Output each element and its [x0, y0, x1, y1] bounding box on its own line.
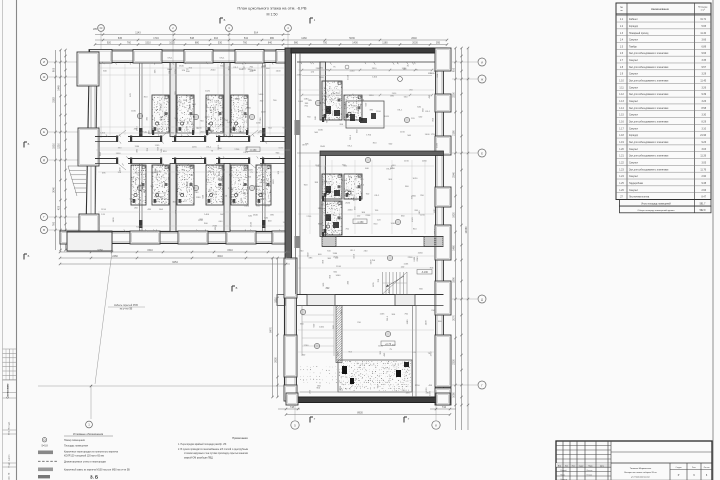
svg-text:Д: Д [481, 297, 483, 301]
wall y151 right wing [320, 151, 444, 156]
svg-text:1155: 1155 [420, 214, 425, 216]
svg-text:1510: 1510 [369, 95, 375, 97]
svg-text:1180: 1180 [256, 122, 261, 124]
svg-text:9.39: 9.39 [702, 94, 707, 96]
svg-text:ОК-1: ОК-1 [386, 169, 392, 171]
svg-text:Е: Е [481, 151, 483, 155]
lower wing corridor lines [302, 314, 334, 316]
svg-text:1400: 1400 [276, 71, 282, 73]
svg-text:1180: 1180 [340, 385, 342, 390]
svg-text:2640: 2640 [219, 170, 221, 176]
svg-text:1020: 1020 [205, 90, 211, 92]
level mark boxes [353, 219, 367, 224]
svg-text:1155: 1155 [373, 282, 375, 287]
partition walls row2 [170, 164, 176, 232]
svg-text:1.24: 1.24 [619, 176, 624, 178]
interior stairs [382, 272, 384, 294]
svg-text:2260: 2260 [229, 197, 235, 199]
svg-text:31.71: 31.71 [700, 19, 706, 21]
svg-text:2260: 2260 [246, 107, 252, 109]
bottom dimension corner left [278, 408, 300, 410]
wall tick noise [188, 134, 190, 136]
svg-text:3.30: 3.30 [702, 115, 707, 117]
left dimension row 2 [60, 50, 62, 250]
svg-text:980: 980 [270, 37, 275, 40]
svg-text:1400: 1400 [426, 320, 428, 326]
svg-text:1.25: 1.25 [619, 183, 624, 185]
svg-text:1.14: 1.14 [619, 108, 624, 110]
svg-text:1400: 1400 [113, 217, 115, 223]
svg-text:2030: 2030 [412, 42, 418, 45]
lower wing left dims outer [272, 258, 274, 397]
svg-text:1400: 1400 [372, 77, 378, 79]
svg-text:В: В [236, 286, 238, 290]
svg-text:Тамбур: Тамбур [629, 46, 638, 48]
svg-text:Зал для собеседования с клиент: Зал для собеседования с клиентами [629, 81, 669, 83]
left dimension row 3 [65, 50, 67, 250]
svg-text:21.96: 21.96 [700, 135, 706, 137]
legend item brick fence [38, 468, 53, 472]
svg-text:Зал для собеседования с клиент: Зал для собеседования с клиентами [629, 67, 669, 69]
bathroom C2 [344, 95, 362, 120]
svg-text:3.05: 3.05 [702, 162, 707, 164]
svg-text:880: 880 [195, 42, 200, 45]
svg-text:534: 534 [244, 37, 249, 40]
section cut mark Г [309, 417, 311, 423]
svg-text:1155: 1155 [404, 161, 409, 163]
title block (stamp) [556, 441, 712, 480]
stairs level box [417, 270, 432, 275]
svg-text:1510: 1510 [190, 97, 192, 103]
svg-text:1.22: 1.22 [619, 162, 624, 164]
svg-text:1180: 1180 [304, 98, 309, 100]
svg-text:1510: 1510 [227, 249, 233, 252]
svg-text:1400: 1400 [425, 134, 431, 136]
dimension row 1 top [95, 34, 290, 36]
svg-text:Коридор: Коридор [629, 135, 639, 137]
svg-text:Взам. инв. №: Взам. инв. № [8, 472, 11, 480]
svg-text:8.29: 8.29 [702, 122, 707, 124]
svg-text:2640: 2640 [205, 117, 211, 119]
top wall left wing [89, 49, 291, 51]
svg-text:9254: 9254 [172, 261, 178, 264]
svg-text:1180: 1180 [332, 253, 337, 255]
left margin revision stamp grid [3, 348, 17, 350]
svg-text:Коридор: Коридор [629, 26, 639, 28]
svg-text:2640: 2640 [210, 70, 216, 72]
dimension row below left wing 3 [60, 263, 290, 265]
svg-text:1.15: 1.15 [619, 115, 624, 117]
svg-text:1.11: 1.11 [619, 87, 624, 89]
svg-text:Общая площадь помещений здания: Общая площадь помещений здания [638, 209, 676, 212]
corridor wall upper [95, 136, 291, 138]
svg-text:1750: 1750 [303, 345, 309, 347]
svg-text:760: 760 [53, 221, 56, 226]
partition x320 upper right wing [320, 62, 326, 120]
svg-text:920: 920 [107, 42, 112, 45]
svg-text:Санузел: Санузел [629, 190, 639, 192]
svg-text:425: 425 [58, 205, 61, 210]
svg-text:Санузел: Санузел [629, 162, 639, 164]
section cut mark Б [219, 18, 221, 24]
svg-text:2. В кухнях проводится газос: 2. В кухнях проводится газоснабжение и/б… [178, 448, 248, 451]
svg-text:1.20: 1.20 [619, 149, 624, 151]
svg-text:1400: 1400 [335, 275, 341, 277]
svg-text:Зал для собеседования с клиент: Зал для собеседования с клиентами [629, 156, 669, 158]
svg-text:1510: 1510 [376, 111, 382, 113]
svg-text:2.90: 2.90 [702, 176, 707, 178]
svg-text:2640: 2640 [167, 69, 173, 71]
svg-text:1400: 1400 [116, 153, 122, 155]
bathroom B4 [231, 165, 248, 205]
svg-text:8470: 8470 [270, 327, 273, 333]
svg-text:591.7: 591.7 [700, 203, 706, 205]
bottom wall left wing [60, 231, 291, 233]
svg-text:1020: 1020 [412, 178, 418, 180]
svg-text:11.76: 11.76 [700, 169, 706, 171]
svg-text:640: 640 [268, 42, 273, 45]
lower wing left dims [277, 258, 279, 397]
svg-text:845: 845 [118, 37, 123, 40]
svg-text:ОК-1: ОК-1 [321, 205, 327, 207]
svg-text:ОК-1: ОК-1 [434, 228, 436, 234]
pilaster left bottom [79, 214, 99, 244]
svg-text:1143: 1143 [135, 32, 141, 35]
svg-text:700: 700 [323, 42, 328, 45]
bathroom A1 [152, 95, 169, 133]
legend item brick partitions [38, 451, 53, 455]
svg-text:1180: 1180 [134, 146, 139, 148]
svg-text:1750: 1750 [177, 102, 183, 104]
svg-text:1910: 1910 [372, 68, 378, 70]
svg-text:ОК-1: ОК-1 [347, 146, 353, 148]
svg-text:Стадия: Стадия [675, 467, 681, 469]
long reference line bottom left [38, 385, 290, 387]
svg-text:760: 760 [243, 42, 248, 45]
section cut mark Г [403, 417, 405, 423]
bathroom B3 [206, 165, 223, 205]
svg-text:2070: 2070 [453, 315, 456, 321]
pilaster left top [77, 52, 99, 86]
svg-text:S=5.8: S=5.8 [41, 444, 48, 447]
svg-text:Лист: Лист [692, 467, 696, 469]
cable leader line [95, 252, 112, 384]
svg-text:2640: 2640 [179, 66, 185, 68]
bottom axis circles [291, 421, 299, 429]
svg-text:Санузел: Санузел [629, 149, 639, 151]
bottom wall right wing [286, 397, 450, 403]
svg-text:В: В [43, 228, 45, 232]
left wall windows [90, 86, 92, 128]
svg-text:1510: 1510 [347, 74, 349, 80]
svg-text:Е: Е [43, 130, 45, 134]
right axis circles and lines [478, 58, 486, 66]
svg-text:2640: 2640 [142, 187, 148, 189]
bathroom B5 [256, 165, 271, 205]
svg-text:1750: 1750 [208, 95, 210, 101]
svg-text:9.57: 9.57 [702, 67, 707, 69]
svg-text:3163: 3163 [53, 97, 56, 103]
svg-text:Зал для собеседования с клиент: Зал для собеседования с клиентами [629, 122, 669, 124]
svg-text:Кирпичные перегородки из полно: Кирпичные перегородки из полнотелого кир… [64, 451, 119, 454]
svg-text:Б: Б [224, 18, 226, 22]
svg-text:1020: 1020 [283, 222, 289, 224]
bathroom fixtures dark blobs [326, 106, 331, 114]
svg-text:ОК-1: ОК-1 [350, 134, 352, 140]
svg-text:538: 538 [190, 37, 195, 40]
svg-text:Пожарный проход: Пожарный проход [629, 32, 649, 35]
svg-text:Разраб.: Разраб. [561, 470, 568, 472]
legend item demolished walls [38, 460, 57, 462]
svg-text:-6.196: -6.196 [421, 272, 428, 274]
svg-text:2640: 2640 [307, 252, 309, 258]
dimension row 2 top [95, 39, 447, 41]
svg-text:2640: 2640 [315, 165, 321, 167]
svg-text:1400: 1400 [227, 122, 233, 124]
svg-text:ОК-1: ОК-1 [220, 58, 226, 60]
top axis circles [98, 25, 105, 32]
svg-text:2640: 2640 [239, 69, 245, 71]
svg-text:3.29: 3.29 [702, 74, 707, 76]
svg-text:3040: 3040 [53, 187, 56, 193]
svg-text:Зал для собеседования с клиент: Зал для собеседования с клиентами [629, 169, 669, 171]
svg-text:Зал для собеседования с клиент: Зал для собеседования с клиентами [629, 94, 669, 96]
svg-text:-6.150: -6.150 [250, 149, 257, 152]
svg-text:Санузел: Санузел [629, 74, 639, 76]
svg-text:стояком наружных стен путями п: стояком наружных стен путями прокладку с… [184, 453, 249, 455]
svg-text:1155: 1155 [101, 209, 106, 211]
svg-text:8930: 8930 [357, 412, 363, 415]
svg-text:ОК-1: ОК-1 [425, 111, 431, 113]
svg-text:1750: 1750 [366, 135, 372, 137]
svg-text:285: 285 [93, 28, 98, 31]
partition walls row1 [170, 63, 176, 137]
svg-text:1716: 1716 [153, 37, 159, 40]
kitchen partition x413 [412, 306, 414, 397]
svg-text:1180: 1180 [319, 77, 324, 79]
svg-text:№: № [620, 6, 623, 9]
svg-text:1890: 1890 [453, 277, 456, 283]
svg-text:3.10: 3.10 [702, 128, 707, 130]
svg-text:1180: 1180 [382, 42, 388, 45]
svg-text:1.26: 1.26 [619, 190, 624, 192]
svg-text:916: 916 [214, 37, 219, 40]
svg-text:530: 530 [218, 42, 223, 45]
svg-text:Ж: Ж [43, 75, 46, 79]
svg-text:1180: 1180 [434, 208, 436, 213]
bottom dimension corner right [430, 408, 456, 410]
svg-text:маркой-ОМ разобщая ПВД: маркой-ОМ разобщая ПВД [184, 456, 213, 459]
frame right border [712, 0, 714, 480]
door jambs corridor [116, 136, 118, 143]
right dimension row 1 [455, 48, 457, 430]
svg-text:2260: 2260 [151, 172, 157, 174]
svg-text:2640: 2640 [417, 256, 419, 262]
svg-text:395: 395 [436, 42, 441, 45]
svg-text:1180: 1180 [407, 319, 409, 324]
svg-text:ОК-1: ОК-1 [160, 103, 162, 109]
wall y236 right wing [322, 236, 444, 238]
svg-text:3250: 3250 [453, 92, 456, 98]
svg-text:ОК-1: ОК-1 [350, 250, 356, 252]
svg-text:1020: 1020 [329, 99, 335, 101]
svg-text:1.16: 1.16 [619, 122, 624, 124]
sheet left edge line [2, 0, 4, 480]
svg-text:1180: 1180 [259, 199, 264, 201]
left margin signature cells [3, 379, 17, 381]
svg-text:1020: 1020 [135, 173, 141, 175]
svg-text:9.66: 9.66 [702, 53, 707, 55]
section cut mark Б [23, 142, 25, 148]
svg-text:1400: 1400 [338, 350, 340, 356]
room outline upper right [346, 101, 384, 128]
upper right wing dim chain [302, 69, 432, 71]
svg-text:1010: 1010 [169, 42, 175, 45]
svg-text:Примечания: Примечания [232, 436, 248, 440]
svg-text:Зал для собеседования с клиент: Зал для собеседования с клиентами [629, 142, 669, 144]
svg-text:1400: 1400 [258, 94, 264, 96]
svg-text:1750: 1750 [175, 68, 177, 74]
room schedule table [616, 3, 711, 200]
svg-text:3.03: 3.03 [702, 149, 707, 151]
svg-text:1020: 1020 [273, 179, 275, 185]
wall y294 right wing [277, 295, 285, 306]
room number circles [137, 113, 142, 118]
svg-text:1. Перегородки крайней площа: 1. Перегородки крайней площади разобр. И… [178, 443, 227, 446]
svg-text:1180: 1180 [196, 197, 201, 199]
left axis circles and lines [40, 58, 47, 65]
section cut mark В [439, 284, 441, 290]
svg-text:Демонтируемые стены и перегоро: Демонтируемые стены и перегородки [64, 460, 107, 463]
section cut mark Б [23, 254, 25, 260]
svg-text:2630: 2630 [275, 357, 278, 363]
svg-text:1510: 1510 [215, 225, 217, 231]
svg-text:1260: 1260 [301, 37, 307, 40]
svg-text:1510: 1510 [147, 249, 153, 252]
svg-text:3.26: 3.26 [702, 87, 707, 89]
svg-text:3.66: 3.66 [702, 40, 707, 42]
svg-text:1.13: 1.13 [619, 101, 624, 103]
svg-text:Гардеробная: Гардеробная [629, 183, 644, 185]
svg-text:ОК-1: ОК-1 [243, 152, 249, 154]
svg-text:760: 760 [127, 42, 132, 45]
lower left outer wall right wing [284, 258, 286, 397]
svg-text:И: И [481, 60, 483, 64]
hatched wall x336 lower right wing [336, 306, 342, 363]
dimension row below left wing 2 [60, 257, 290, 259]
dimension row 3 top [95, 44, 447, 46]
svg-text:Подп. и дата: Подп. и дата [9, 454, 11, 468]
svg-text:Подп.: Подп. [588, 465, 593, 467]
section cut mark 1 [309, 18, 311, 24]
svg-text:2260: 2260 [297, 75, 303, 77]
exterior stairs left [68, 165, 86, 167]
svg-text:Б: Б [28, 254, 30, 258]
right dimension row 3 [467, 48, 469, 430]
svg-text:1.21: 1.21 [619, 156, 624, 158]
svg-text:1155: 1155 [192, 147, 197, 149]
svg-text:1400: 1400 [298, 101, 304, 103]
bathroom D2 [344, 174, 362, 199]
svg-text:1445: 1445 [58, 85, 61, 91]
svg-text:Санузел: Санузел [629, 176, 639, 178]
svg-text:в м²: в м² [701, 9, 705, 12]
legend item cut label [38, 475, 50, 478]
svg-text:Пров.: Пров. [561, 474, 566, 476]
svg-text:ОК-1: ОК-1 [387, 315, 389, 321]
svg-text:1.17: 1.17 [619, 128, 624, 130]
svg-text:1400: 1400 [325, 165, 327, 171]
central spine wall [285, 48, 292, 258]
svg-text:КОЛР120 толщиной 120 мм и 65 м: КОЛР120 толщиной 120 мм и 65 мм [64, 454, 104, 457]
svg-text:748: 748 [290, 406, 295, 409]
svg-text:Наименование: Наименование [651, 7, 670, 11]
svg-text:1155: 1155 [265, 206, 270, 208]
bathroom A2 [177, 95, 194, 133]
left outer wall [86, 50, 90, 231]
bathroom D3 [322, 201, 342, 235]
svg-text:1.10: 1.10 [619, 81, 624, 83]
svg-text:1180: 1180 [187, 125, 189, 130]
svg-text:+0.76: +0.76 [385, 343, 392, 346]
svg-text:1020: 1020 [426, 387, 428, 393]
svg-text:8.58: 8.58 [702, 108, 707, 110]
svg-text:11.34: 11.34 [700, 33, 706, 35]
svg-text:980: 980 [294, 42, 299, 45]
svg-text:3010: 3010 [217, 255, 223, 258]
svg-text:8.47: 8.47 [702, 197, 707, 199]
svg-text:ОК-1: ОК-1 [218, 144, 220, 150]
svg-text:6.89: 6.89 [702, 46, 707, 48]
bathroom B1 [152, 165, 169, 205]
svg-text:11.26: 11.26 [700, 156, 706, 158]
bathroom D1 [322, 174, 342, 199]
left dimension row 1 [55, 50, 57, 250]
svg-text:1020: 1020 [384, 116, 390, 118]
svg-text:1750: 1750 [431, 351, 433, 357]
svg-text:Зал для собеседования с клиент: Зал для собеседования с клиентами [629, 53, 669, 55]
svg-text:Ж: Ж [481, 77, 484, 81]
svg-text:Согласовано: Согласовано [8, 383, 10, 398]
svg-text:1510: 1510 [359, 185, 365, 187]
bathroom A4 [231, 95, 248, 133]
svg-text:3.26: 3.26 [702, 101, 707, 103]
svg-text:Лестничная клетка: Лестничная клетка [629, 197, 650, 199]
bathroom B2 [177, 165, 194, 205]
svg-text:Кирпичный завес из кирпича М10: Кирпичный завес из кирпича М100 на р-ре … [64, 468, 130, 471]
svg-text:2260: 2260 [408, 257, 414, 259]
svg-text:1080: 1080 [453, 392, 456, 398]
svg-text:Условные обозначения: Условные обозначения [73, 432, 104, 436]
svg-text:9.26: 9.26 [702, 142, 707, 144]
svg-text:№док: №док [579, 464, 584, 467]
svg-text:Листов: Листов [704, 467, 710, 469]
svg-text:Кабинет: Кабинет [629, 19, 639, 21]
svg-text:1180: 1180 [422, 160, 427, 162]
svg-text:2640: 2640 [358, 108, 360, 114]
svg-text:1510: 1510 [336, 266, 342, 268]
svg-text:1155: 1155 [400, 132, 405, 134]
svg-text:2640: 2640 [411, 37, 417, 40]
svg-text:1155: 1155 [380, 313, 385, 315]
svg-text:Б: Б [28, 142, 30, 146]
svg-text:2640: 2640 [253, 215, 259, 217]
svg-text:1020: 1020 [430, 390, 432, 396]
right wing mid dim chain [302, 94, 432, 96]
bottom dimension row 2 [286, 414, 450, 416]
svg-text:ОК-1: ОК-1 [397, 110, 403, 112]
svg-text:1.19: 1.19 [619, 142, 624, 144]
